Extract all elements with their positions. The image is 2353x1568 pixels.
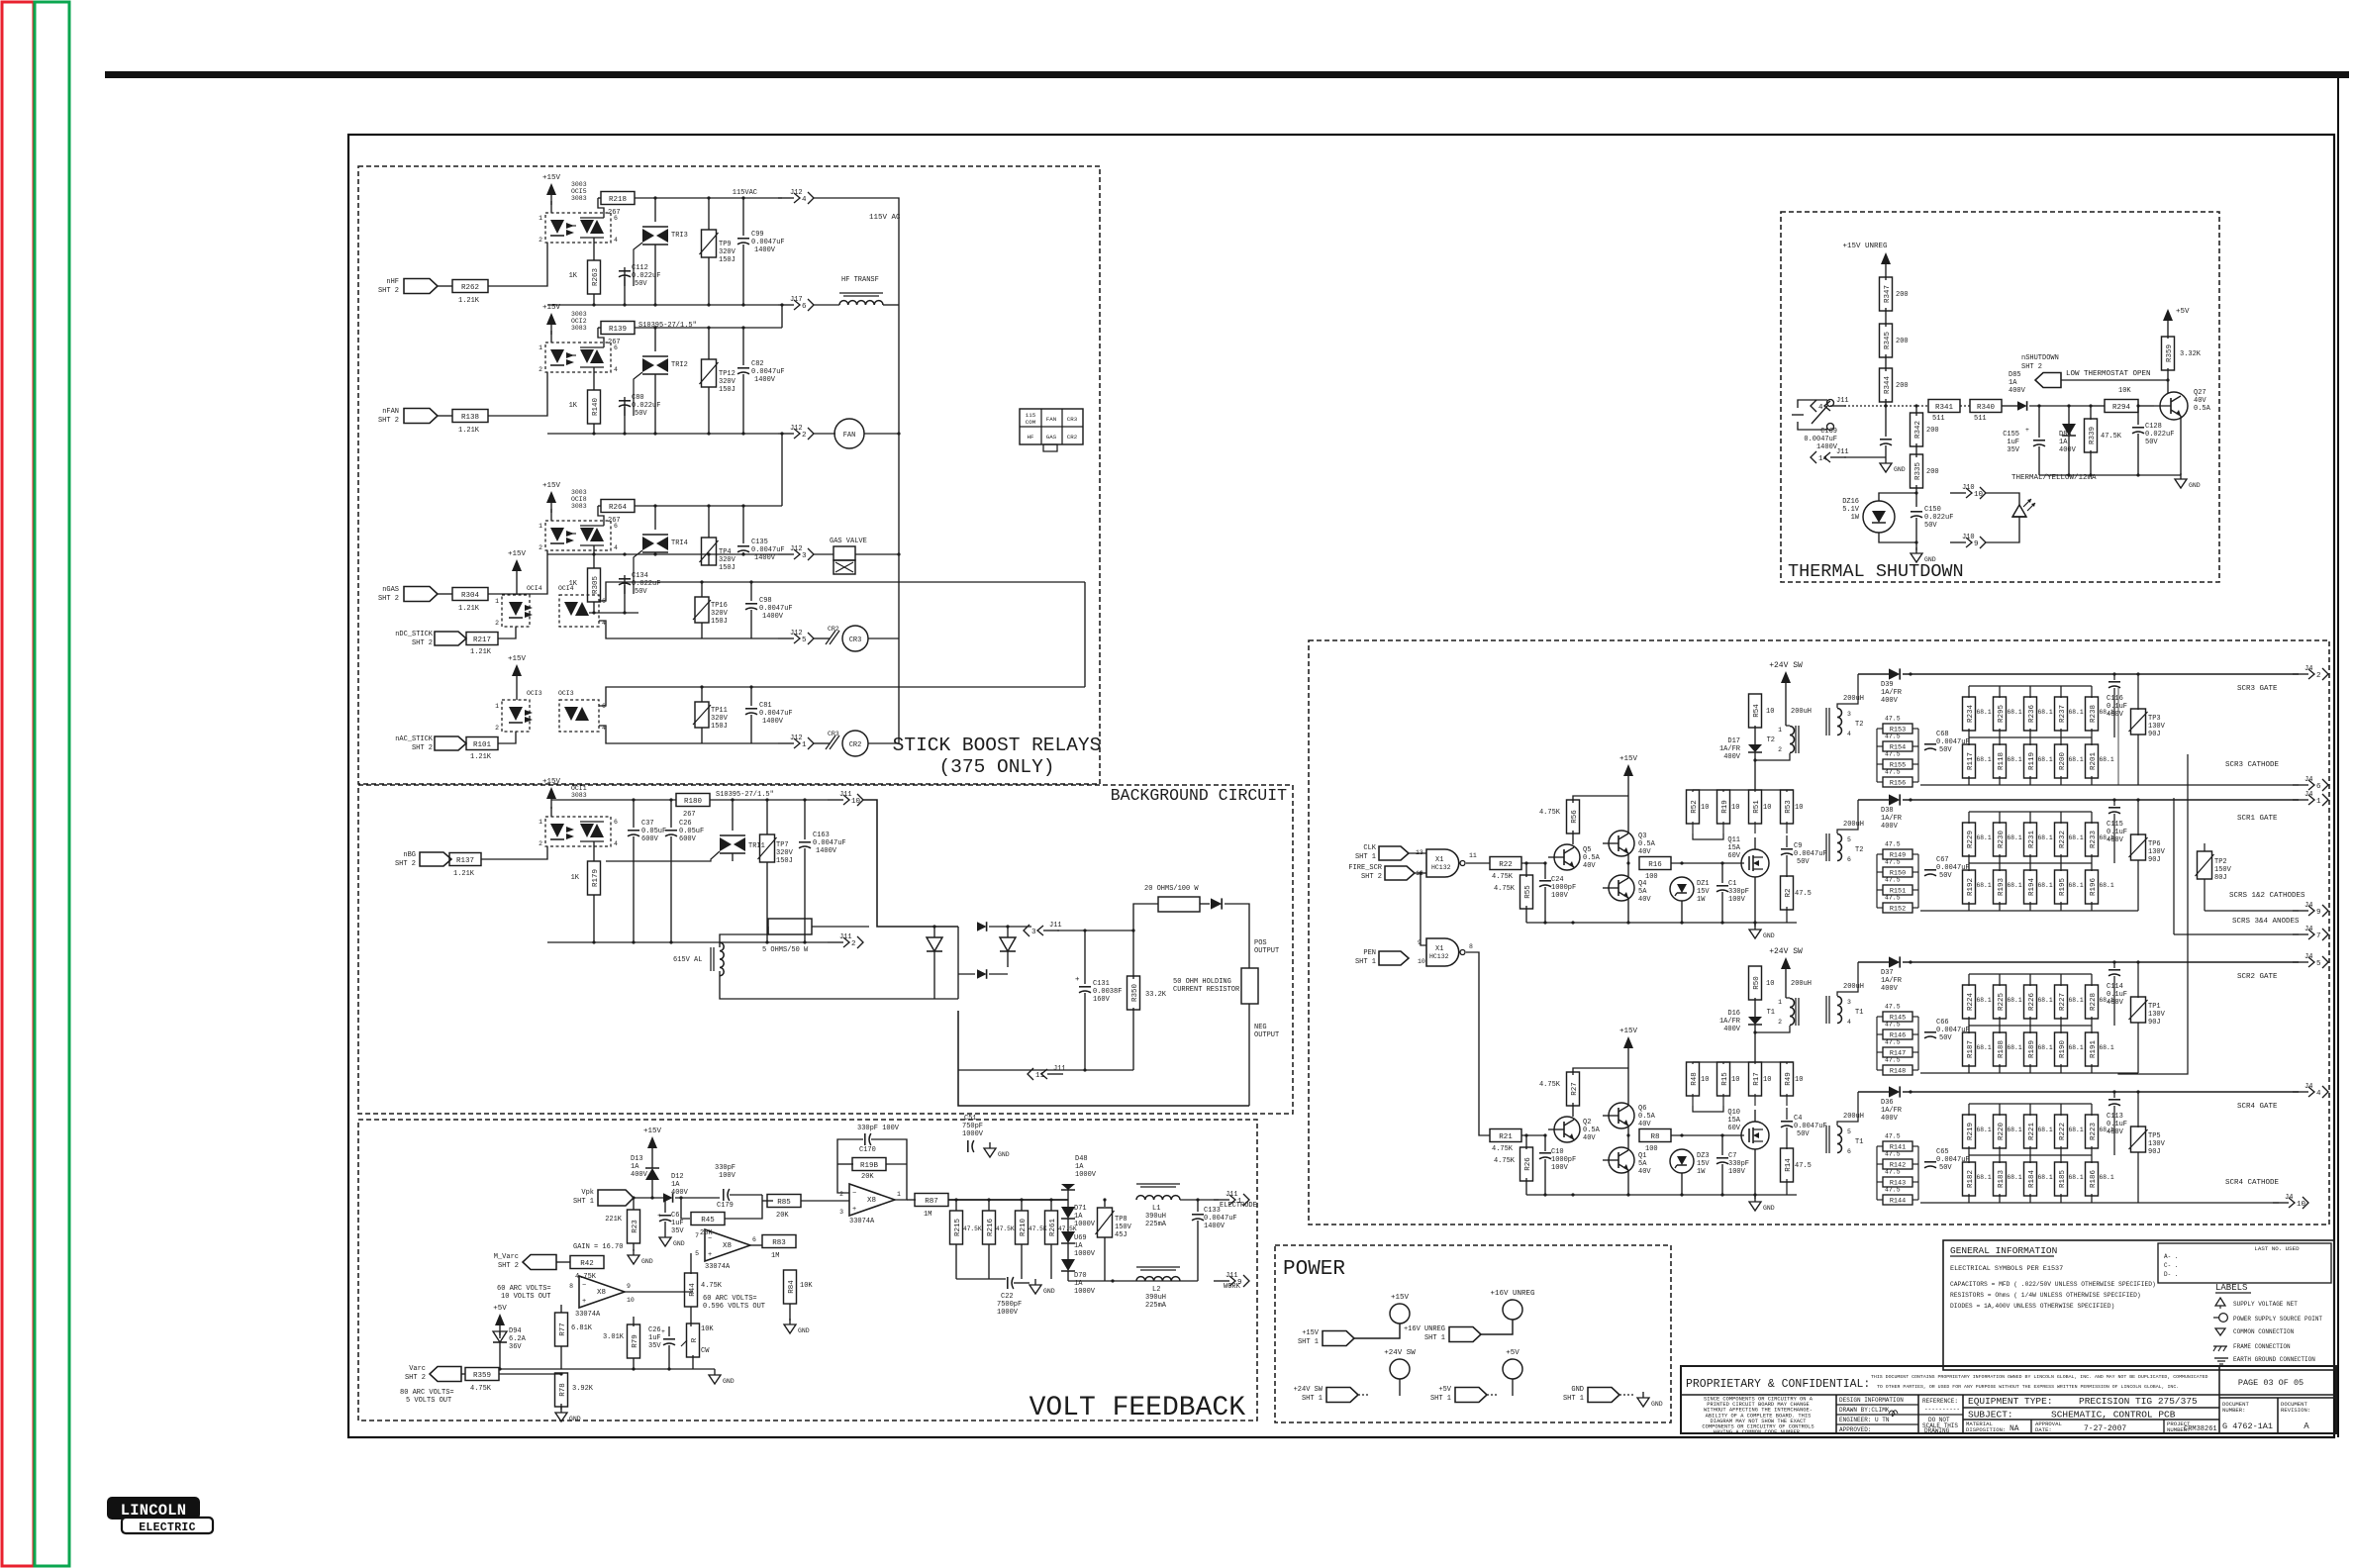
capacitor C7 330pF 100V bbox=[1721, 1135, 1723, 1155]
svg-text:OCI3: OCI3 bbox=[558, 690, 574, 697]
svg-text:1W: 1W bbox=[1697, 1168, 1706, 1176]
triac TRI3 bbox=[654, 198, 656, 222]
svg-text:1400V: 1400V bbox=[816, 847, 837, 855]
resistor R139 267 bbox=[601, 322, 635, 335]
svg-text:0.022uF: 0.022uF bbox=[1924, 514, 1953, 522]
svg-text:+15V: +15V bbox=[1619, 755, 1638, 763]
svg-text:SHT 1: SHT 1 bbox=[1298, 1338, 1319, 1346]
svg-text:68.1: 68.1 bbox=[2100, 1044, 2114, 1051]
svg-text:C113: C113 bbox=[2107, 1113, 2123, 1121]
svg-text:POWER SUPPLY SOURCE POINT: POWER SUPPLY SOURCE POINT bbox=[2233, 1316, 2322, 1323]
svg-text:R226: R226 bbox=[2028, 993, 2036, 1012]
svg-text:+15V: +15V bbox=[542, 482, 561, 490]
svg-text:9: 9 bbox=[2316, 909, 2321, 917]
svg-text:R217: R217 bbox=[473, 637, 491, 644]
svg-text:Q4: Q4 bbox=[1638, 880, 1646, 888]
transistor Q4 5A 40V bbox=[1609, 875, 1634, 901]
svg-text:20 OHMS/100 W: 20 OHMS/100 W bbox=[1144, 885, 1199, 893]
svg-text:400V: 400V bbox=[2107, 999, 2124, 1007]
varistor TP1 130V 90J bbox=[2137, 962, 2139, 998]
svg-text:90J: 90J bbox=[2148, 856, 2161, 864]
svg-text:CLK: CLK bbox=[1363, 844, 1376, 852]
svg-text:6: 6 bbox=[802, 303, 807, 311]
box LAST NO USED bbox=[2158, 1243, 2331, 1283]
wire ladder bottom bbox=[1693, 833, 1723, 839]
ground thermal bbox=[2180, 473, 2182, 479]
svg-text:0.022uF: 0.022uF bbox=[632, 402, 660, 410]
svg-text:SCR4 CATHODE: SCR4 CATHODE bbox=[2225, 1179, 2280, 1187]
svg-text:M_Varc: M_Varc bbox=[494, 1253, 519, 1261]
svg-text:33074A: 33074A bbox=[575, 1311, 601, 1319]
resistor R83 1M bbox=[750, 1244, 762, 1246]
svg-text:2: 2 bbox=[851, 940, 856, 948]
svg-text:115: 115 bbox=[1026, 412, 1036, 419]
ground DZ16 bbox=[1915, 542, 1917, 550]
wire ch3 lower tie bbox=[589, 612, 638, 614]
svg-text:TO OTHER PARTIES, OR USED FOR: TO OTHER PARTIES, OR USED FOR ANY PURPOS… bbox=[1877, 1384, 2179, 1390]
optocoupler OCI3 LED side bbox=[502, 700, 530, 732]
svg-text:PRECISION TIG 275/375: PRECISION TIG 275/375 bbox=[2079, 1396, 2198, 1407]
capacitor C22 7500pF 1000V bbox=[1007, 1277, 1009, 1289]
svg-text:STICK BOOST RELAYS: STICK BOOST RELAYS bbox=[893, 735, 1102, 756]
power +15V driver bbox=[1623, 764, 1633, 776]
svg-text:R263: R263 bbox=[592, 268, 600, 287]
diode D39 1A/FR 400V bbox=[1889, 668, 1900, 679]
svg-text:FIRE_SCR: FIRE_SCR bbox=[1348, 864, 1382, 872]
wire opto pin6 to rail bbox=[598, 506, 604, 526]
resistor R16 100 bbox=[1628, 862, 1641, 864]
svg-text:DZ3: DZ3 bbox=[1697, 1152, 1710, 1160]
resistor R220 68.1 bbox=[1999, 1104, 2001, 1116]
svg-text:CR2: CR2 bbox=[828, 626, 839, 633]
svg-text:C37: C37 bbox=[641, 820, 654, 828]
svg-text:1A: 1A bbox=[2009, 379, 2017, 387]
svg-text:1: 1 bbox=[539, 523, 542, 530]
svg-text:1.21K: 1.21K bbox=[458, 605, 480, 613]
ground lower rail bbox=[693, 1368, 715, 1370]
svg-text:50V: 50V bbox=[1797, 858, 1810, 866]
svg-text:80J: 80J bbox=[2214, 874, 2227, 882]
svg-text:2: 2 bbox=[1778, 1019, 1782, 1026]
legend supply voltage net bbox=[2215, 1298, 2225, 1306]
svg-text:R225: R225 bbox=[1998, 993, 2006, 1012]
svg-text:Q6: Q6 bbox=[1638, 1105, 1646, 1113]
transistor Q27 40V 0.5A bbox=[2160, 392, 2188, 420]
svg-text:10: 10 bbox=[1701, 804, 1709, 812]
svg-text:750pF: 750pF bbox=[962, 1123, 983, 1130]
svg-text:R23: R23 bbox=[632, 1220, 639, 1233]
svg-text:POWER: POWER bbox=[1283, 1258, 1345, 1281]
svg-text:R101: R101 bbox=[473, 741, 492, 749]
svg-text:47.5: 47.5 bbox=[1885, 1039, 1901, 1046]
svg-text:1M: 1M bbox=[924, 1211, 931, 1219]
svg-text:R138: R138 bbox=[461, 414, 479, 422]
svg-text:R335: R335 bbox=[1914, 462, 1922, 481]
connector block 115COM/FAN/CR3 HF/GAS/CR2 bbox=[1020, 409, 1083, 444]
svg-text:C- .: C- . bbox=[2164, 1262, 2178, 1269]
ground C22 bbox=[1034, 1279, 1036, 1285]
led thermal indicator bbox=[1986, 493, 2019, 505]
svg-text:CR3: CR3 bbox=[849, 637, 862, 644]
svg-text:----------: ---------- bbox=[1924, 1406, 1960, 1413]
svg-text:10K: 10K bbox=[701, 1325, 714, 1333]
svg-text:J17: J17 bbox=[790, 296, 803, 304]
svg-text:R223: R223 bbox=[2090, 1123, 2098, 1141]
svg-text:50 OHM HOLDING: 50 OHM HOLDING bbox=[1173, 978, 1231, 986]
svg-text:TP3: TP3 bbox=[2148, 715, 2161, 723]
ground driver top bbox=[1754, 923, 1756, 927]
svg-text:100V: 100V bbox=[1728, 1168, 1746, 1176]
svg-text:FAN: FAN bbox=[843, 432, 856, 440]
svg-text:0.0047uF: 0.0047uF bbox=[751, 546, 785, 554]
resistor R295 68.1 bbox=[1999, 686, 2001, 698]
svg-text:0.5A: 0.5A bbox=[1583, 1127, 1601, 1134]
svg-text:D37: D37 bbox=[1881, 969, 1894, 977]
resistor R53 10 bbox=[1786, 790, 1788, 792]
resistor R341 511 bbox=[1886, 405, 1928, 407]
resistor R231 68.1 bbox=[2029, 812, 2031, 824]
svg-text:R234: R234 bbox=[1967, 705, 1975, 724]
resistor R14 47.5 vertical bbox=[1781, 1148, 1794, 1182]
svg-text:GND: GND bbox=[723, 1378, 735, 1385]
resistor R19B 20K feedback bbox=[837, 1163, 853, 1165]
svg-text:1W: 1W bbox=[1851, 514, 1860, 522]
capacitor C150 0.022uF 50V bbox=[1915, 507, 1917, 511]
capacitor C163 0.0047uF 1400V bbox=[804, 800, 806, 839]
svg-text:10: 10 bbox=[1766, 980, 1774, 988]
svg-text:COMMON CONNECTION: COMMON CONNECTION bbox=[2233, 1328, 2295, 1335]
resistor R222 68.1 bbox=[2060, 1104, 2062, 1116]
svg-text:C24: C24 bbox=[1551, 876, 1564, 884]
svg-text:2: 2 bbox=[839, 1191, 843, 1198]
svg-text:320V: 320V bbox=[719, 248, 736, 256]
svg-text:50V: 50V bbox=[1924, 522, 1937, 530]
svg-text:6: 6 bbox=[614, 819, 618, 826]
svg-text:3003: 3003 bbox=[571, 489, 587, 496]
svg-text:10: 10 bbox=[627, 1297, 635, 1304]
resistor R182 68.1 bbox=[1968, 1155, 1970, 1163]
svg-text:5: 5 bbox=[1847, 1128, 1851, 1135]
svg-text:+5V: +5V bbox=[493, 1305, 507, 1313]
svg-text:2: 2 bbox=[539, 237, 542, 244]
resistor R305 1K vertical bbox=[593, 545, 595, 568]
resistor R210 47.5K bbox=[1021, 1200, 1023, 1211]
svg-text:ELECTRODE: ELECTRODE bbox=[1220, 1202, 1257, 1210]
svg-text:200: 200 bbox=[1926, 427, 1939, 435]
table title block frame bbox=[1681, 1366, 2336, 1433]
svg-text:SCR3 CATHODE: SCR3 CATHODE bbox=[2225, 761, 2280, 769]
svg-text:47.5K: 47.5K bbox=[2101, 433, 2122, 441]
svg-text:100V: 100V bbox=[1728, 896, 1746, 904]
svg-text:T2: T2 bbox=[1855, 846, 1863, 854]
svg-text:R341: R341 bbox=[1935, 404, 1954, 412]
svg-text:+: + bbox=[1075, 976, 1080, 984]
svg-text:4.75K: 4.75K bbox=[1492, 1145, 1514, 1153]
resistor R42 4.75K bbox=[556, 1261, 570, 1263]
op-amp X8 third stage bbox=[705, 1229, 750, 1261]
svg-text:R144: R144 bbox=[1890, 1198, 1906, 1206]
svg-text:221K: 221K bbox=[605, 1216, 623, 1224]
svg-text:0.5A: 0.5A bbox=[1638, 1113, 1656, 1121]
svg-text:R232: R232 bbox=[2059, 831, 2067, 848]
svg-text:D36: D36 bbox=[1881, 1099, 1894, 1107]
svg-text:SHT 1: SHT 1 bbox=[1355, 853, 1376, 861]
svg-text:TP5: TP5 bbox=[2148, 1132, 2161, 1140]
svg-text:R183: R183 bbox=[1998, 1170, 2006, 1189]
wire stick 115V bus x=790 bbox=[781, 198, 783, 554]
svg-text:68.1: 68.1 bbox=[2100, 756, 2114, 763]
wire opto pin6 to rail bbox=[598, 328, 604, 347]
svg-text:0.0047uF: 0.0047uF bbox=[751, 368, 785, 376]
svg-text:D39: D39 bbox=[1881, 681, 1894, 689]
svg-text:3: 3 bbox=[1031, 929, 1036, 936]
svg-text:68.1: 68.1 bbox=[2038, 834, 2053, 841]
varistor TP16 bbox=[701, 582, 703, 597]
varistor TP7 320V 150J bbox=[766, 800, 768, 834]
wire nSHUTDOWN net bbox=[2061, 379, 2168, 381]
svg-text:Q10: Q10 bbox=[1727, 1109, 1740, 1117]
svg-text:68.1: 68.1 bbox=[1977, 834, 1992, 841]
svg-text:47.5: 47.5 bbox=[1885, 1133, 1901, 1140]
svg-text:DIODES = 1A,400V UNLESS OT: DIODES = 1A,400V UNLESS OTHERWISE SPECIF… bbox=[1950, 1303, 2114, 1310]
thermostat switch bbox=[1808, 399, 1827, 401]
svg-text:D17: D17 bbox=[1727, 737, 1740, 745]
svg-text:SHT 2: SHT 2 bbox=[412, 744, 433, 752]
svg-text:600V: 600V bbox=[679, 835, 697, 843]
svg-text:40V: 40V bbox=[2194, 397, 2206, 405]
svg-text:GND: GND bbox=[798, 1327, 810, 1334]
wire +24V to R54 bbox=[1755, 968, 1786, 977]
op-amp X8 first stage bbox=[579, 1276, 625, 1308]
svg-text:DISPOSITION:: DISPOSITION: bbox=[1966, 1426, 2006, 1433]
section box GENERAL INFORMATION bbox=[1943, 1240, 2334, 1370]
wire row lower bottom rail bbox=[1920, 1202, 2138, 1204]
svg-text:68.1: 68.1 bbox=[2069, 882, 2084, 889]
svg-text:68.1: 68.1 bbox=[2038, 1127, 2053, 1133]
svg-text:SHT 2: SHT 2 bbox=[2021, 363, 2042, 371]
resistor R344 200 bbox=[1885, 354, 1887, 371]
wire driver bottom rail bbox=[1526, 922, 1797, 924]
svg-text:1A: 1A bbox=[2059, 439, 2068, 446]
resistor R21 4.75K bbox=[1490, 1129, 1521, 1142]
wire network top to output bbox=[1909, 672, 1912, 675]
svg-text:3003: 3003 bbox=[571, 311, 587, 318]
wire work loop bbox=[1068, 1280, 1198, 1282]
svg-text:1.21K: 1.21K bbox=[470, 648, 492, 656]
svg-text:S10395-27/1.5": S10395-27/1.5" bbox=[638, 322, 697, 330]
wire bottom rail bbox=[547, 304, 778, 306]
wire network top to output bbox=[1909, 1090, 1912, 1093]
resistor R49 10 bbox=[1786, 1062, 1788, 1064]
diode zener DZ1 15V 1W bbox=[1670, 877, 1694, 901]
svg-text:GND: GND bbox=[1924, 556, 1936, 563]
svg-text:47.5: 47.5 bbox=[1885, 1004, 1901, 1011]
wire input to opto pin 2 bbox=[488, 243, 547, 286]
svg-text:150J: 150J bbox=[719, 564, 735, 572]
svg-text:200: 200 bbox=[1926, 468, 1939, 476]
svg-text:7500pF: 7500pF bbox=[997, 1301, 1022, 1309]
svg-text:GND: GND bbox=[1894, 466, 1906, 473]
resistor R340 511 bbox=[1960, 405, 1970, 407]
svg-text:R77: R77 bbox=[559, 1323, 567, 1336]
svg-text:115VAC: 115VAC bbox=[733, 189, 757, 197]
svg-text:C98: C98 bbox=[759, 597, 772, 605]
svg-text:35V: 35V bbox=[2007, 446, 2019, 454]
svg-text:THERMAL SHUTDOWN: THERMAL SHUTDOWN bbox=[1788, 561, 1964, 582]
svg-text:0.0047uF: 0.0047uF bbox=[813, 839, 846, 847]
svg-text:10K: 10K bbox=[2118, 387, 2131, 395]
svg-text:40V: 40V bbox=[1583, 862, 1596, 870]
svg-text:1A/FR: 1A/FR bbox=[1719, 1018, 1741, 1026]
varistor TP4 320V 150J bbox=[708, 506, 710, 538]
svg-text:47.5: 47.5 bbox=[1885, 716, 1901, 723]
svg-text:R345: R345 bbox=[1884, 332, 1892, 350]
resistor R238 68.1 bbox=[2091, 686, 2093, 698]
svg-text:68.1: 68.1 bbox=[2008, 1044, 2022, 1051]
svg-text:C65: C65 bbox=[1936, 1148, 1949, 1156]
svg-text:J10: J10 bbox=[1962, 484, 1975, 492]
svg-text:C133: C133 bbox=[1204, 1207, 1221, 1215]
svg-text:3083: 3083 bbox=[571, 195, 587, 202]
svg-text:150J: 150J bbox=[711, 618, 728, 626]
svg-text:R182: R182 bbox=[1967, 1170, 1975, 1188]
svg-text:400V: 400V bbox=[2107, 836, 2124, 844]
svg-text:C81: C81 bbox=[759, 702, 772, 710]
svg-text:130V: 130V bbox=[2148, 1011, 2166, 1019]
svg-text:TP16: TP16 bbox=[711, 602, 728, 610]
svg-text:3: 3 bbox=[802, 552, 807, 560]
wire scr bus vertical 2 bbox=[2118, 754, 2188, 1074]
diode background output bbox=[1211, 898, 1222, 909]
svg-text:TP1: TP1 bbox=[2148, 1003, 2161, 1011]
power +15V OCI3 bbox=[512, 664, 522, 676]
resistor R232 68.1 bbox=[2060, 812, 2062, 824]
svg-text:33.2K: 33.2K bbox=[1145, 991, 1167, 999]
svg-text:1: 1 bbox=[897, 1191, 901, 1198]
svg-text:68.1: 68.1 bbox=[2069, 834, 2084, 841]
svg-text:47.5: 47.5 bbox=[1885, 841, 1901, 848]
svg-text:200uH: 200uH bbox=[1791, 980, 1812, 988]
svg-text:1: 1 bbox=[1778, 727, 1782, 734]
resistor R219 68.1 bbox=[1968, 1104, 1970, 1116]
svg-text:J12: J12 bbox=[790, 189, 803, 197]
svg-text:8: 8 bbox=[569, 1283, 573, 1290]
svg-text:GAIN = 16.70: GAIN = 16.70 bbox=[573, 1243, 623, 1251]
svg-text:+: + bbox=[2025, 427, 2029, 434]
svg-text:WORK: WORK bbox=[1224, 1283, 1241, 1291]
svg-text:1A/FR: 1A/FR bbox=[1881, 1107, 1903, 1115]
resistor R183 68.1 bbox=[1999, 1155, 2001, 1163]
svg-text:R220: R220 bbox=[1998, 1123, 2006, 1141]
svg-text:68.1: 68.1 bbox=[2038, 1174, 2053, 1181]
svg-text:60 ARC VOLTS=: 60 ARC VOLTS= bbox=[497, 1285, 551, 1293]
svg-text:68.1: 68.1 bbox=[2069, 709, 2084, 716]
legend common connection bbox=[2215, 1328, 2225, 1335]
svg-text:400V: 400V bbox=[1881, 823, 1899, 831]
resistor R78 3.92K bbox=[559, 1372, 562, 1375]
svg-text:68.1: 68.1 bbox=[2008, 709, 2022, 716]
svg-text:R216: R216 bbox=[987, 1219, 995, 1237]
svg-text:13: 13 bbox=[1416, 849, 1423, 856]
svg-text:SUBJECT:: SUBJECT: bbox=[1968, 1410, 2013, 1421]
resistor R200 68.1 bbox=[2060, 737, 2062, 745]
capacitor C113 0.1uF 400V bbox=[2113, 1092, 2115, 1098]
node top rail bbox=[653, 196, 656, 199]
diode zener DZ3 15V 1W bbox=[1670, 1149, 1694, 1173]
svg-text:Q3: Q3 bbox=[1638, 833, 1646, 840]
svg-text:SHT 2: SHT 2 bbox=[498, 1262, 519, 1270]
svg-text:R27: R27 bbox=[1571, 1082, 1579, 1096]
svg-text:+15V UNREG: +15V UNREG bbox=[1842, 243, 1888, 250]
svg-text:200uH: 200uH bbox=[1843, 983, 1864, 991]
wire row upper rails bbox=[1969, 1103, 2092, 1105]
wire OCI3 output rails bbox=[599, 687, 1085, 706]
svg-text:20K: 20K bbox=[861, 1173, 874, 1181]
resistor R185 68.1 bbox=[2060, 1155, 2062, 1163]
svg-text:TP12: TP12 bbox=[719, 370, 735, 378]
svg-text:OCI4: OCI4 bbox=[558, 585, 574, 592]
svg-text:90J: 90J bbox=[2148, 1148, 2161, 1156]
wire triac gate bbox=[634, 372, 642, 416]
svg-text:REFERENCE:: REFERENCE: bbox=[1922, 1398, 1958, 1405]
svg-text:4: 4 bbox=[802, 196, 807, 204]
svg-text:R186: R186 bbox=[2090, 1170, 2098, 1189]
power +15V OCI1 bbox=[546, 787, 556, 799]
svg-text:6.2A: 6.2A bbox=[509, 1335, 527, 1343]
svg-text:1: 1 bbox=[539, 215, 542, 222]
svg-text:10: 10 bbox=[1763, 804, 1771, 812]
svg-text:47.5: 47.5 bbox=[1885, 877, 1901, 884]
svg-text:100V: 100V bbox=[719, 1172, 736, 1180]
svg-text:60V: 60V bbox=[1727, 852, 1740, 860]
svg-text:nDC_STICK: nDC_STICK bbox=[395, 631, 434, 638]
transistor Q3 0.5A 40V bbox=[1609, 831, 1634, 856]
svg-text:J10: J10 bbox=[1962, 534, 1975, 541]
svg-text:X8: X8 bbox=[597, 1289, 606, 1297]
inductor L2 390uH 225mA bbox=[1136, 1266, 1180, 1268]
svg-text:R219: R219 bbox=[1967, 1123, 1975, 1140]
svg-text:330pF: 330pF bbox=[1728, 888, 1749, 896]
svg-text:+: + bbox=[708, 1251, 712, 1259]
svg-text:390uH: 390uH bbox=[1145, 1213, 1166, 1221]
svg-text:R295: R295 bbox=[1998, 705, 2006, 724]
svg-text:C116: C116 bbox=[2107, 695, 2123, 703]
svg-text:D16: D16 bbox=[1727, 1010, 1740, 1018]
capacitor C68 0.0047uF 50V bbox=[1924, 743, 1936, 745]
resistor R79 3.01K bbox=[633, 1317, 635, 1326]
wire clk to lower nand bbox=[1421, 873, 1426, 945]
wire bottom rail bbox=[547, 433, 778, 435]
svg-text:47.5: 47.5 bbox=[1885, 859, 1901, 866]
svg-text:1A: 1A bbox=[671, 1181, 680, 1189]
svg-text:X8: X8 bbox=[723, 1242, 732, 1250]
svg-text:150J: 150J bbox=[711, 723, 728, 731]
resistor R192 68.1 bbox=[1968, 863, 1970, 871]
resistor R179 1K vertical bbox=[593, 841, 595, 861]
svg-text:1: 1 bbox=[2316, 798, 2321, 806]
svg-text:+15V: +15V bbox=[508, 550, 527, 558]
wire row upper rails bbox=[1969, 811, 2092, 813]
svg-text:LOW THERMOSTAT OPEN: LOW THERMOSTAT OPEN bbox=[2066, 370, 2151, 378]
svg-text:R56: R56 bbox=[1571, 810, 1579, 824]
wire background lower rail bbox=[958, 1069, 1133, 1071]
svg-text:D70: D70 bbox=[1074, 1272, 1087, 1280]
svg-text:7-27-2007: 7-27-2007 bbox=[2084, 1424, 2126, 1433]
svg-text:3: 3 bbox=[1847, 711, 1851, 718]
svg-text:R119: R119 bbox=[2028, 752, 2036, 770]
svg-text:1.21K: 1.21K bbox=[470, 753, 492, 761]
svg-text:J11: J11 bbox=[1226, 1191, 1238, 1199]
